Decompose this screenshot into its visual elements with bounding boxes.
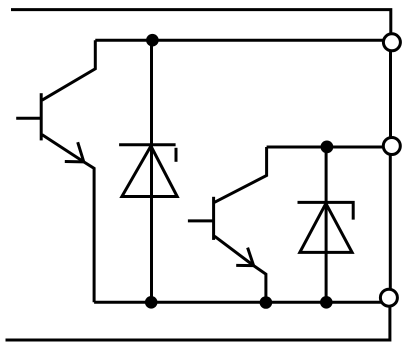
transistor Q1 emitter lead — [42, 135, 94, 303]
transistor Q1 collector lead — [42, 40, 95, 100]
transistor Q1 emitter arrow — [65, 142, 84, 162]
terminal 1 (collector C1) — [383, 34, 400, 51]
diode D1 cathode hook tick — [175, 148, 178, 162]
transistor Q2 base bar — [212, 197, 215, 240]
wire right bus terminal2-terminal3 — [389, 154, 392, 290]
terminal 2 (collector C2) — [383, 138, 400, 155]
junction dot node C1/D1 cathode — [146, 34, 159, 47]
transistor Q2 emitter arrow — [236, 248, 253, 266]
junction dot node C2/D2 cathode — [321, 141, 334, 154]
diode D1 triangle — [122, 146, 177, 197]
junction dot D1 anode on emitter rail — [145, 296, 158, 309]
terminal 3 (common emitter E) — [380, 289, 397, 306]
diode D1 cathode bar — [119, 143, 176, 146]
transistor Q1 base bar — [40, 93, 43, 140]
wire right bus terminal1-terminal2 — [389, 50, 392, 138]
wire top case line down to terminal 1 — [11, 10, 391, 34]
wire collector rail C2 (mid rail to terminal 2) — [267, 146, 384, 149]
transistor Q2 emitter lead — [215, 236, 266, 302]
wire bottom case line from terminal 3 — [6, 305, 390, 340]
junction dot Q2 emitter on emitter rail — [260, 296, 273, 309]
transistor Q2 collector lead — [215, 147, 267, 202]
diode D2 triangle — [300, 203, 352, 252]
transistor Q2 base lead — [188, 219, 214, 222]
transistor Q1 base lead — [16, 117, 41, 120]
wire D2 branch vertical — [325, 147, 328, 302]
diode D2 cathode bar with hook — [298, 202, 354, 219]
junction dot D2 anode on emitter rail — [320, 296, 333, 309]
wire D1 branch vertical — [150, 40, 153, 302]
wire collector rail C1 (top rail to terminal 1) — [95, 39, 383, 42]
wire emitter rail (bottom rail to terminal 3) — [94, 301, 381, 304]
